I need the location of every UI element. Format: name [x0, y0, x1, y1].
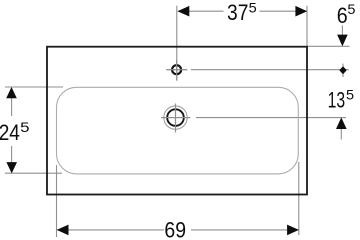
svg-text:37: 37 [227, 0, 248, 25]
svg-text:69: 69 [164, 218, 186, 240]
svg-text:5: 5 [346, 88, 354, 103]
svg-text:5: 5 [249, 1, 257, 16]
svg-text:5: 5 [20, 120, 29, 135]
svg-text:5: 5 [347, 2, 355, 17]
svg-text:6: 6 [337, 3, 348, 28]
svg-text:24: 24 [0, 120, 20, 145]
svg-text:13: 13 [328, 88, 346, 113]
